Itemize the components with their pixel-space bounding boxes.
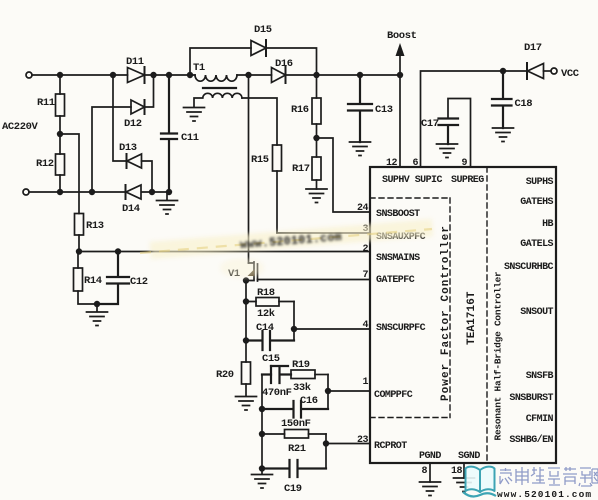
resistor R17 [292,138,321,189]
svg-text:CFMIN: CFMIN [526,414,554,425]
svg-text:C18: C18 [515,98,533,110]
svg-text:RCPROT: RCPROT [374,441,407,452]
svg-text:TEA1716T: TEA1716T [466,291,478,345]
diode D17 [524,42,551,79]
ground below R14 C12 [87,304,108,326]
diode D15 [190,24,317,75]
ground bridge negative [157,192,178,214]
resistor R16 [291,75,321,138]
svg-text:470nF: 470nF [262,387,292,399]
svg-text:SNSBOOST: SNSBOOST [376,209,420,220]
svg-text:SNSMAINS: SNSMAINS [376,253,420,264]
ground T1 secondary [184,108,205,122]
ground compensation column [252,469,273,489]
diode D11 [126,56,145,83]
svg-text:D12: D12 [124,118,142,130]
svg-text:C16: C16 [300,395,318,407]
ground below C17 [437,144,458,158]
svg-text:18: 18 [451,466,463,477]
svg-text:33k: 33k [293,382,311,394]
svg-text:C15: C15 [262,353,280,365]
svg-text:R16: R16 [291,104,309,116]
wire top AC line [32,74,400,76]
svg-text:6: 6 [412,158,418,169]
wire R15 to pin3 SNSAUXPFC [277,232,370,234]
capacitor C11 [161,75,199,192]
svg-text:VCC: VCC [561,68,580,80]
svg-text:R15: R15 [251,154,269,166]
svg-text:Resonant Half-Bridge Controlle: Resonant Half-Bridge Controller [493,271,504,441]
svg-text:SUPHS: SUPHS [526,177,554,188]
svg-text:2: 2 [362,244,368,255]
svg-text:C14: C14 [256,322,274,334]
junction dots top rail [57,72,403,78]
watermark logo open book [463,467,496,497]
svg-text:Boost: Boost [387,30,417,42]
wire COMPPFC pin1 node [328,375,370,410]
resistor R20 [216,362,251,396]
svg-text:C13: C13 [375,104,393,116]
diode D14 [122,185,141,215]
svg-text:R21: R21 [288,443,306,455]
svg-text:24: 24 [357,203,369,214]
wire pin12 SUPHV [399,75,401,167]
svg-text:1: 1 [362,377,368,388]
terminal top AC input [26,72,32,78]
wire compensation ground column [261,375,263,470]
resistor R18 with 12k value [246,287,294,320]
svg-text:9: 9 [461,158,467,169]
wire V1 source to R20 [245,302,247,363]
wire pin9 SUPREG to C17 [448,99,471,168]
svg-text:GATELS: GATELS [520,239,553,250]
svg-text:C19: C19 [284,483,302,495]
svg-text:7: 7 [362,270,368,281]
svg-text:PGND: PGND [419,451,441,462]
svg-text:12k: 12k [257,308,275,320]
svg-text:SGND: SGND [458,451,480,462]
svg-text:Power Factor Controller: Power Factor Controller [440,225,452,401]
svg-text:SNSCURHBC: SNSCURHBC [504,262,554,273]
resistor R21 [262,430,326,456]
IC PFC section dashed box [370,198,450,418]
svg-text:R11: R11 [37,97,55,109]
resistor R19 with 33k value [291,359,328,394]
transistor V1 [228,262,258,302]
wire GATEPFC pin7 to V1 gate [258,279,371,281]
svg-text:R14: R14 [84,275,102,287]
svg-text:D13: D13 [119,142,137,154]
svg-text:D17: D17 [524,42,542,54]
svg-text:SNSOUT: SNSOUT [520,307,553,318]
svg-text:D15: D15 [254,24,272,36]
svg-text:R19: R19 [292,359,310,371]
resistor R13 [60,134,104,252]
junction dots divider and sense nodes [57,68,506,307]
wire RCPROT pin23 node [326,434,370,469]
wire bottom AC line [29,191,169,193]
wire pin18 SGND ground [463,463,465,478]
svg-text:R12: R12 [36,158,54,170]
wire SNSBOOST pin24 link [317,138,371,212]
svg-text:SNSCURPFC: SNSCURPFC [376,323,426,334]
capacitor C14 [246,322,294,350]
diode D12 [92,75,154,192]
Boost arrow and net label [387,30,417,75]
svg-text:GATEHS: GATEHS [520,197,553,208]
watermark center yellow band [150,219,433,259]
ground below C13 [350,142,371,156]
ground PGND [420,482,441,496]
watermark blob over V1 [220,258,264,278]
diode D13 [113,75,152,192]
terminal bottom AC input [23,189,29,195]
svg-text:SSHBG/EN: SSHBG/EN [509,434,553,446]
IC section separator dashed line [486,167,488,463]
svg-text:R18: R18 [257,287,275,299]
svg-text:12: 12 [386,158,398,169]
svg-text:R17: R17 [292,163,310,175]
svg-text:8: 8 [421,466,427,477]
svg-text:C11: C11 [181,132,199,144]
svg-text:GATEPFC: GATEPFC [376,275,415,286]
junction dots PFC network [243,277,331,471]
svg-text:SNSFB: SNSFB [526,371,554,382]
svg-text:D14: D14 [122,203,140,215]
svg-text:C12: C12 [130,276,148,288]
wire T1 aux to R15 [242,98,277,145]
resistor R12 [56,154,65,175]
diode D16 [272,58,293,83]
capacitor C18 [492,71,532,128]
capacitor C16 with 150nF value [262,395,328,430]
wire pin8 PGND ground [429,463,431,482]
ground below C18 [493,128,514,142]
resistor R14 [74,252,102,305]
wire drain column V1 [248,75,250,263]
watermark Chinese site name [500,467,598,486]
svg-text:SUPREG: SUPREG [451,175,484,186]
ground below R17 [306,189,327,203]
svg-text:D16: D16 [275,58,293,70]
svg-text:www.520101.com: www.520101.com [497,489,592,500]
transformer T1 primary winding [193,62,237,81]
svg-text:C17: C17 [421,118,439,130]
svg-text:T1: T1 [193,62,205,74]
capacitor C19 [262,460,326,495]
svg-text:R20: R20 [216,369,234,381]
ground SGND [454,478,475,492]
svg-text:D11: D11 [126,56,144,68]
svg-text:4: 4 [362,320,368,331]
watermark center yellow dashed line [140,229,432,253]
svg-text:R13: R13 [86,220,104,232]
wire divider column R11 R12 [59,75,61,192]
transformer T1 secondary winding [194,93,242,107]
svg-text:HB: HB [542,219,553,230]
capacitor C17 [421,118,458,144]
junction dots bottom rail [57,189,172,195]
resistor R11 [56,94,65,116]
svg-text:SNSBURST: SNSBURST [509,393,553,404]
resistor R15 [251,145,282,233]
wire pin4 node column [294,302,370,341]
capacitor C12 [97,252,148,305]
transformer T1 core [203,87,236,89]
svg-text:SUPHV SUPIC: SUPHV SUPIC [382,175,443,186]
capacitor C15 with 470nF value [262,353,292,399]
terminal VCC [551,68,580,80]
ground below R20 [236,397,257,411]
capacitor C13 [348,75,393,142]
IC top pin names SUPHV SUPIC SUPREG [382,175,484,186]
svg-text:COMPPFC: COMPPFC [374,390,413,401]
svg-text:AC220V: AC220V [2,121,39,133]
svg-text:23: 23 [357,435,369,446]
IC U1 TEA1716T outer box [370,167,556,463]
wire SNSMAINS long node to pin2 [79,251,370,253]
svg-text:150nF: 150nF [281,418,311,430]
wire pin6 SUPIC to VCC rail [421,71,528,167]
